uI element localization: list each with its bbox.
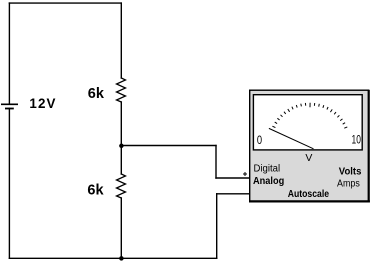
voltmeter U1 [243,90,370,202]
wire: bottom rail up toward meter - terminal [216,194,218,258]
wire: R2 bottom to bottom rail [120,198,122,258]
meter scale window [253,95,362,150]
wire: into meter - terminal [217,193,250,195]
svg-text:10: 10 [352,133,362,147]
node A junction [119,144,124,149]
svg-text:V: V [305,152,312,164]
svg-text:6k: 6k [88,86,105,102]
svg-text:0: 0 [257,133,262,147]
wire: top rail down to R1 top [120,3,122,78]
svg-text:6k: 6k [87,183,104,199]
svg-text:Digital: Digital [254,164,281,175]
svg-text:Analog: Analog [253,176,284,187]
junction: R2 / bottom rail [119,256,124,261]
wire: bottom rail [9,257,216,259]
wire: R1 bottom to node A [120,102,122,146]
svg-text:Amps: Amps [337,178,360,189]
meter needle [269,128,314,148]
meter scale ticks [272,103,347,129]
meter body shadow right [368,90,370,202]
wire: node A to the right [121,145,216,147]
wire: down toward meter + terminal [215,146,217,179]
svg-text:12V: 12V [29,96,56,111]
+ terminal marker [243,172,247,176]
wire: left rail, battery + up to top-left corner [8,3,10,104]
meter body [250,90,369,201]
svg-text:Autoscale: Autoscale [288,189,330,200]
wire: top rail [9,2,121,4]
resistor R2 [117,174,126,198]
meter body shadow bottom [249,200,370,202]
svg-text:Volts: Volts [339,166,362,177]
wire: node A to R2 top [120,146,122,175]
wire: into meter + terminal [216,177,250,179]
resistor R1 [117,78,126,102]
wire: battery - down to bottom rail [8,109,10,259]
battery V1 [2,104,17,108]
